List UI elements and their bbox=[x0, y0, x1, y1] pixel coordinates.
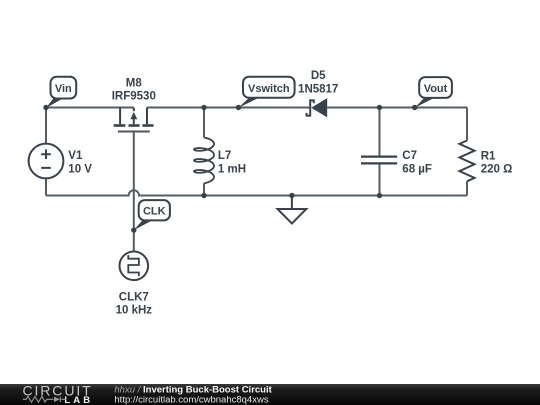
svg-text:C7: C7 bbox=[402, 150, 417, 162]
svg-text:M8: M8 bbox=[126, 77, 143, 89]
svg-text:CLK7: CLK7 bbox=[119, 292, 149, 304]
svg-text:R1: R1 bbox=[481, 150, 496, 162]
svg-text:10 kHz: 10 kHz bbox=[116, 305, 153, 317]
svg-text:10 V: 10 V bbox=[68, 163, 92, 175]
svg-text:D5: D5 bbox=[311, 70, 326, 82]
svg-text:220 Ω: 220 Ω bbox=[481, 164, 513, 176]
svg-text:68 µF: 68 µF bbox=[402, 163, 432, 175]
svg-text:L7: L7 bbox=[218, 150, 231, 162]
svg-text:IRF9530: IRF9530 bbox=[112, 90, 156, 102]
svg-text:LAB: LAB bbox=[64, 395, 93, 405]
svg-text:Vout: Vout bbox=[424, 83, 448, 95]
svg-text:V1: V1 bbox=[68, 150, 83, 162]
svg-text:1N5817: 1N5817 bbox=[298, 83, 338, 95]
svg-text:1 mH: 1 mH bbox=[218, 163, 246, 175]
svg-text:http://circuitlab.com/cwbnahc8: http://circuitlab.com/cwbnahc8q4xws bbox=[114, 394, 268, 405]
svg-text:Vin: Vin bbox=[55, 83, 72, 95]
svg-text:Vswitch: Vswitch bbox=[248, 83, 290, 95]
svg-text:CLK: CLK bbox=[143, 206, 166, 218]
